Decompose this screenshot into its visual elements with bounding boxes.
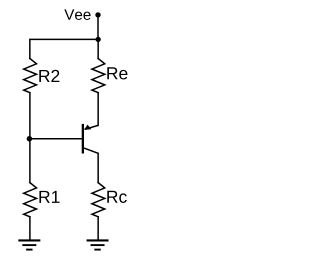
wire Re down to emitter corner — [97, 93, 99, 126]
label R1 — [39, 191, 59, 203]
wire base — [30, 138, 82, 140]
resistor Re — [92, 59, 105, 93]
resistor R1 — [24, 183, 37, 217]
label Re — [107, 67, 127, 79]
node Vee terminal dot — [95, 12, 100, 17]
resistor Rc — [92, 183, 105, 217]
transistor Q1 (PNP) — [83, 124, 98, 154]
wire left branch R2 to R1 — [29, 93, 31, 183]
label Vee — [64, 9, 90, 20]
ground (right) — [87, 240, 109, 249]
wire Vee stub — [97, 15, 99, 39]
wire top rail with corner down to R2 — [30, 39, 98, 58]
label R2 — [39, 70, 59, 82]
label Rc — [107, 191, 126, 203]
node junction dot top rail — [96, 37, 101, 42]
node junction dot base — [27, 136, 33, 142]
wire top rail node down to Re — [97, 39, 99, 58]
wire R1 to ground — [29, 217, 31, 240]
resistor R2 — [24, 59, 37, 93]
wire collector corner down to Rc — [97, 153, 99, 182]
ground (left) — [18, 240, 40, 249]
wire Rc to ground — [97, 217, 99, 240]
